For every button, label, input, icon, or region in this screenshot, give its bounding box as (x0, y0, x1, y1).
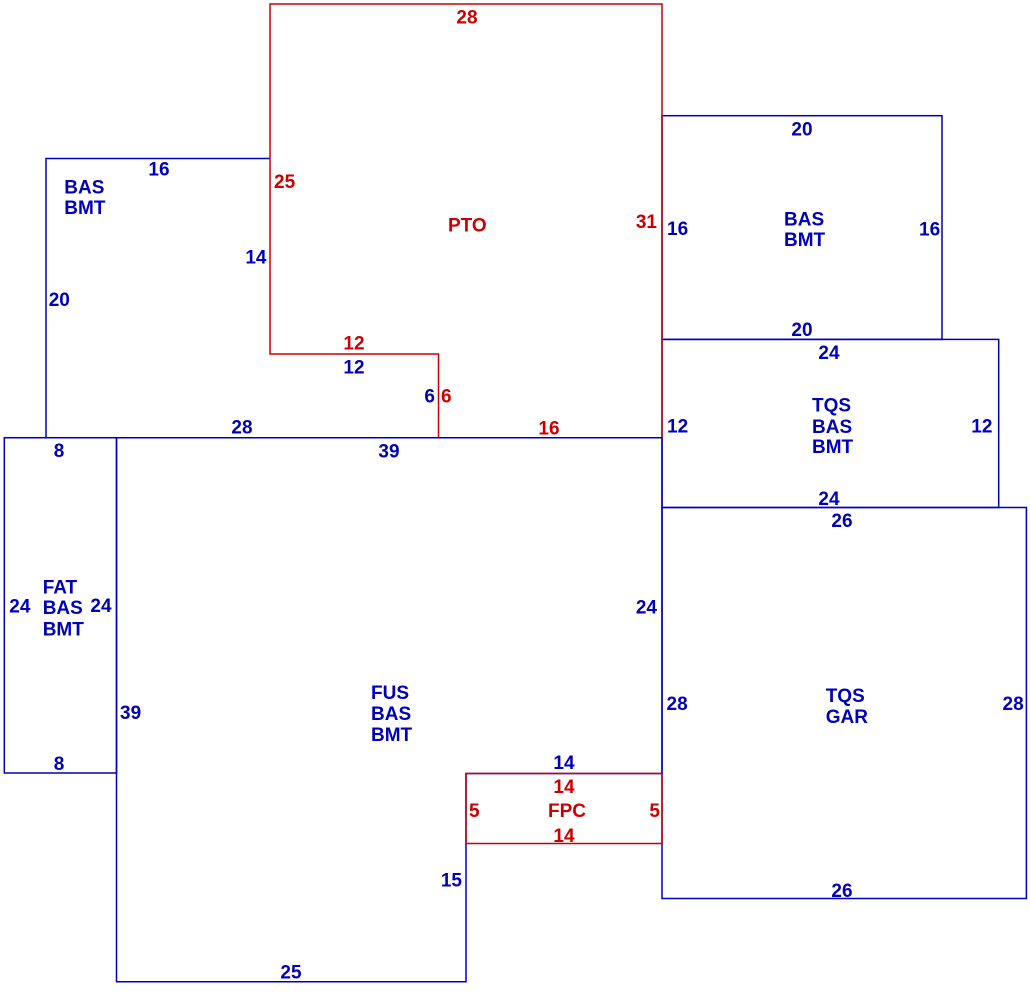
area FUS BAS BMT outline (117, 438, 663, 982)
area FAT BAS BMT outline (4, 438, 116, 773)
svg-text:14: 14 (553, 753, 575, 774)
svg-text:28: 28 (1003, 694, 1024, 715)
svg-text:24: 24 (9, 597, 31, 618)
svg-text:26: 26 (831, 511, 852, 532)
svg-text:TQS: TQS (826, 686, 865, 707)
svg-text:BMT: BMT (812, 437, 854, 458)
svg-text:8: 8 (54, 754, 65, 775)
svg-text:BMT: BMT (371, 725, 413, 746)
svg-text:BMT: BMT (784, 230, 826, 251)
svg-text:20: 20 (791, 320, 812, 341)
svg-text:24: 24 (636, 598, 658, 619)
svg-text:6: 6 (424, 387, 435, 408)
svg-text:BAS: BAS (371, 704, 411, 725)
svg-text:20: 20 (49, 290, 70, 311)
svg-text:PTO: PTO (448, 216, 487, 237)
svg-text:12: 12 (343, 334, 364, 355)
svg-text:BAS: BAS (43, 598, 83, 619)
svg-text:12: 12 (343, 358, 364, 379)
svg-text:25: 25 (274, 172, 296, 193)
svg-text:31: 31 (636, 212, 658, 233)
svg-text:24: 24 (90, 596, 112, 617)
wall main horizontal (blue, over red) (4, 437, 662, 439)
svg-text:15: 15 (441, 871, 463, 892)
svg-text:GAR: GAR (826, 707, 869, 728)
svg-text:28: 28 (231, 418, 252, 439)
svg-text:39: 39 (378, 442, 399, 463)
svg-text:16: 16 (538, 419, 559, 440)
area TQS GAR outline (662, 508, 1026, 899)
svg-text:20: 20 (791, 119, 812, 140)
svg-text:12: 12 (667, 417, 688, 438)
svg-text:FAT: FAT (43, 577, 78, 598)
svg-text:39: 39 (120, 703, 141, 724)
svg-text:FPC: FPC (548, 801, 586, 822)
svg-text:26: 26 (831, 881, 852, 902)
area BAS BMT (top-left) outline (46, 159, 270, 438)
svg-text:24: 24 (818, 489, 840, 510)
svg-text:BMT: BMT (64, 198, 106, 219)
area PTO outline (red) (270, 4, 662, 438)
svg-text:16: 16 (148, 160, 169, 181)
svg-text:BAS: BAS (64, 177, 104, 198)
svg-text:14: 14 (245, 247, 267, 268)
svg-text:BAS: BAS (812, 417, 852, 438)
svg-text:16: 16 (919, 220, 940, 241)
svg-text:25: 25 (280, 963, 302, 984)
svg-text:16: 16 (667, 219, 688, 240)
svg-text:28: 28 (667, 694, 688, 715)
svg-text:BMT: BMT (43, 619, 85, 640)
svg-text:28: 28 (456, 8, 477, 29)
svg-text:TQS: TQS (812, 396, 851, 417)
svg-text:FUS: FUS (371, 683, 409, 704)
svg-text:5: 5 (469, 801, 480, 822)
svg-text:8: 8 (54, 441, 65, 462)
area FPC outline (red) (466, 774, 662, 844)
svg-text:5: 5 (649, 801, 660, 822)
area BAS BMT (top-right) outline (662, 116, 942, 340)
svg-text:14: 14 (553, 826, 575, 847)
svg-text:12: 12 (971, 417, 992, 438)
svg-text:24: 24 (818, 343, 840, 364)
area TQS BAS BMT outline (662, 339, 999, 507)
svg-text:6: 6 (441, 387, 452, 408)
svg-text:BAS: BAS (784, 209, 824, 230)
svg-text:14: 14 (553, 777, 575, 798)
